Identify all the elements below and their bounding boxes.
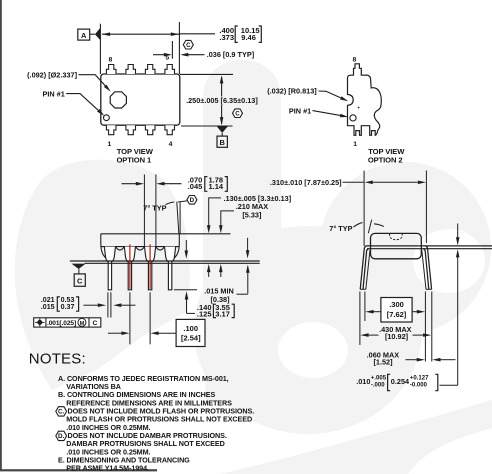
option 2 side body: [371, 233, 422, 258]
option 2 center dot: [358, 107, 360, 109]
option 1 pins (top row): [106, 65, 116, 75]
svg-text:7° TYP: 7° TYP: [143, 203, 166, 212]
svg-text:-0.000: -0.000: [410, 383, 428, 389]
svg-text:C.: C.: [58, 409, 65, 416]
front view body right cap: [174, 234, 179, 258]
svg-text:.125: .125: [197, 309, 212, 318]
extension lines .400 dim: [99, 24, 101, 74]
svg-text:NOTES:: NOTES:: [29, 350, 86, 367]
.070/.045 extension lines (lead 3 shoulder): [143, 174, 145, 246]
svg-text:OPTION 1: OPTION 1: [116, 155, 152, 164]
front view leads with shoulders: [104, 247, 115, 290]
svg-text:7° TYP: 7° TYP: [329, 224, 352, 233]
front view scallops between leads: [116, 247, 125, 251]
svg-text:PER ASME Y14.5M-1994.: PER ASME Y14.5M-1994.: [66, 464, 149, 473]
svg-text:.001[.025]: .001[.025]: [47, 320, 76, 327]
note marker C (right): [233, 109, 243, 118]
lead centerline extensions to .100 dim: [129, 292, 131, 344]
svg-text:A: A: [81, 31, 87, 40]
red section lines leads 2,3: [129, 244, 131, 289]
svg-text:C: C: [235, 110, 240, 117]
note marker D (notes): [56, 431, 67, 440]
svg-text:D: D: [190, 197, 195, 204]
svg-text:8: 8: [353, 56, 357, 63]
note marker C (notes): [56, 407, 67, 416]
svg-text:[7.62]: [7.62]: [387, 310, 407, 319]
.310 extension lines: [363, 171, 365, 247]
index dimple octagon: [110, 92, 126, 108]
svg-text:.300: .300: [389, 300, 404, 309]
svg-text:+0.127: +0.127: [410, 375, 429, 381]
note marker D (front view): [187, 196, 197, 205]
svg-text:.045: .045: [188, 182, 203, 191]
dimension .310: [373, 181, 418, 183]
note marker C (top): [183, 40, 193, 49]
dimension .250 +/- .005: [221, 77, 223, 97]
front view body mid line: [101, 246, 180, 248]
svg-text:[5.33]: [5.33]: [242, 210, 262, 219]
svg-text:1.14: 1.14: [209, 182, 224, 191]
dimension .021/.015 lead width: [83, 304, 98, 306]
option 1 pins (bottom row): [106, 125, 116, 135]
dimension .070/.045: [122, 183, 137, 185]
svg-text:C: C: [186, 42, 191, 49]
svg-text:+.005: +.005: [371, 375, 387, 381]
datum A flag: [78, 29, 90, 40]
dimension .010 lead thickness leader: [457, 224, 459, 239]
svg-text:PIN #1: PIN #1: [42, 90, 64, 99]
page bottom border bar: [0, 469, 157, 471]
option 2 left lead: [360, 246, 366, 289]
datum C flag: [72, 264, 86, 269]
svg-text:[10.92]: [10.92]: [385, 332, 409, 341]
seating plane lines: [70, 260, 260, 262]
svg-text:8: 8: [109, 56, 113, 63]
dimension .140/.125 lead length: [185, 240, 187, 251]
pin 1 marker circle: [104, 115, 110, 121]
front view body top line + right extension: [101, 233, 231, 235]
extension lines .250 dim: [180, 73, 233, 75]
svg-text:.310±.010 [7.87±0.25]: .310±.010 [7.87±0.25]: [270, 178, 342, 187]
svg-text:0.254: 0.254: [391, 377, 410, 386]
svg-text:[1.52]: [1.52]: [373, 358, 393, 367]
svg-text:OPTION 2: OPTION 2: [368, 156, 403, 165]
dashed notch (side view): [390, 234, 403, 240]
svg-text:.010: .010: [356, 377, 370, 386]
svg-text:PIN #1: PIN #1: [289, 106, 311, 115]
option 2 pin1 circle: [350, 115, 356, 121]
svg-text:(.092) [Ø2.337]: (.092) [Ø2.337]: [27, 71, 77, 80]
svg-text:[2.54]: [2.54]: [181, 334, 201, 343]
feature control frame: [34, 318, 101, 327]
lead tip extension tick: [174, 289, 197, 291]
svg-text:D.: D.: [58, 433, 65, 440]
option 2 package body outline with pins: [348, 64, 382, 136]
svg-text:.036 [0.9 TYP]: .036 [0.9 TYP]: [207, 50, 255, 59]
svg-text:3.17: 3.17: [215, 309, 230, 318]
svg-text:9.46: 9.46: [241, 33, 256, 42]
option 2 right lead: [426, 246, 432, 289]
svg-text:0.37: 0.37: [61, 303, 75, 311]
svg-text:C: C: [92, 320, 97, 327]
pin 5 width tick + .036 dim: [171, 41, 173, 59]
lead plane double lines: [366, 245, 492, 247]
lead 1 width extension lines: [107, 292, 109, 317]
option 1 package body (top view): [101, 74, 180, 125]
svg-text:C: C: [77, 277, 83, 286]
dimension .015 MIN standoff: [247, 238, 249, 252]
datum B flag: [217, 126, 228, 133]
svg-text:4: 4: [169, 141, 173, 148]
svg-text:.015: .015: [41, 303, 55, 311]
svg-text:.373: .373: [219, 33, 234, 42]
svg-text:M: M: [80, 321, 85, 327]
svg-text:(.032) [R0.813]: (.032) [R0.813]: [267, 86, 317, 95]
option 2 lead extension lines: [359, 292, 361, 346]
svg-text:.100: .100: [183, 324, 198, 333]
up arrows .130/.210 to seating plane: [208, 267, 210, 278]
dimension .400/.373: [102, 33, 179, 35]
svg-text:B: B: [220, 138, 225, 147]
front view body left cap: [101, 234, 106, 258]
svg-text:.250±.005 [6.35±0.13]: .250±.005 [6.35±0.13]: [186, 96, 258, 105]
svg-text:1: 1: [108, 141, 112, 148]
svg-text:-.000: -.000: [371, 383, 385, 389]
page left border bar: [0, 0, 2, 471]
dimension .300 box: [381, 298, 412, 323]
dimension .100 pitch box: [108, 332, 122, 334]
svg-text:1: 1: [353, 141, 357, 148]
